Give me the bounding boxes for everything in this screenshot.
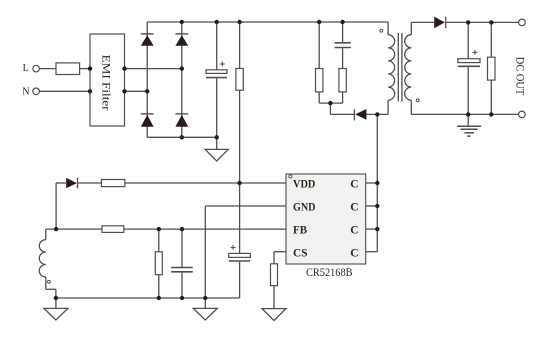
svg-text:VDD: VDD bbox=[293, 179, 315, 191]
svg-text:L: L bbox=[23, 63, 29, 74]
svg-text:CS: CS bbox=[293, 247, 308, 259]
svg-text:C: C bbox=[350, 247, 358, 259]
svg-text:DC OUT: DC OUT bbox=[513, 57, 525, 96]
svg-text:EMI Filter: EMI Filter bbox=[99, 55, 113, 111]
svg-text:C: C bbox=[350, 225, 358, 237]
svg-text:GND: GND bbox=[293, 202, 316, 214]
svg-text:FB: FB bbox=[293, 225, 307, 237]
svg-text:CR52168B: CR52168B bbox=[306, 267, 353, 279]
svg-text:N: N bbox=[22, 86, 29, 97]
svg-text:C: C bbox=[350, 202, 358, 214]
svg-text:C: C bbox=[350, 179, 358, 191]
